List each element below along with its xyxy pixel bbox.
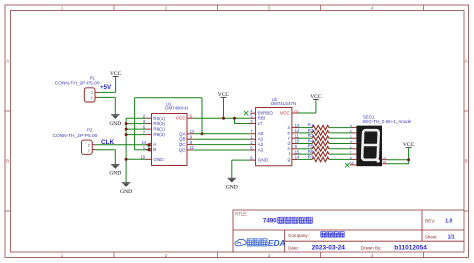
svg-text:QB: QB: [179, 137, 186, 142]
svg-text:A1: A1: [383, 156, 387, 160]
junction on GND bus 4: [125, 158, 128, 161]
svg-text:11: 11: [295, 133, 300, 138]
junction anode node: [407, 158, 410, 161]
svg-text:VCC: VCC: [280, 110, 291, 116]
power flag VCC at U2: [310, 94, 322, 100]
svg-text:1.0: 1.0: [445, 218, 452, 224]
svg-text:7490: 7490: [263, 218, 277, 225]
ground GND below P2: [109, 164, 121, 177]
wire U2 GND pin8: [232, 160, 250, 178]
svg-text:4: 4: [371, 6, 374, 11]
svg-text:R0(1): R0(1): [153, 116, 165, 121]
title value 7490 counter circuit: [263, 217, 312, 224]
svg-text:Company:: Company:: [288, 233, 309, 238]
svg-text:f: f: [350, 151, 351, 155]
svg-text:A0: A0: [258, 131, 264, 136]
svg-text:EDA: EDA: [268, 238, 286, 248]
svg-text:QC: QC: [179, 142, 187, 147]
ground GND below P1: [109, 114, 121, 127]
wire QD to A3: [193, 149, 250, 151]
wire P1 pin2 to VCC: [99, 77, 116, 93]
svg-text:3: 3: [268, 253, 271, 258]
wire QC to A2: [193, 144, 250, 146]
svg-text:DM74LS47N: DM74LS47N: [271, 101, 296, 106]
svg-text:2: 2: [165, 6, 168, 11]
op-amp U1 DM7490AN: [140, 101, 195, 165]
svg-text:LT: LT: [258, 121, 263, 126]
resistor R3: [298, 133, 353, 140]
ground GND below U2: [226, 178, 238, 191]
junction on GND bus 3: [125, 133, 128, 136]
svg-text:d: d: [350, 140, 352, 144]
junction on GND bus 1: [125, 122, 128, 125]
wire VCC net U1 pin5 to U2: [193, 98, 250, 124]
svg-text:B: B: [465, 158, 468, 163]
svg-text:12: 12: [295, 128, 300, 133]
svg-text:2023-03-24: 2023-03-24: [312, 245, 346, 252]
svg-text:1/1: 1/1: [448, 235, 455, 241]
svg-text:R5: R5: [308, 144, 314, 149]
svg-text:GND: GND: [258, 158, 269, 163]
svg-text:14: 14: [142, 140, 147, 145]
wire U2 VCC pin16: [298, 100, 316, 113]
svg-text:2: 2: [165, 253, 168, 258]
svg-text:R9(1): R9(1): [153, 127, 165, 132]
svg-text:14: 14: [295, 155, 300, 160]
svg-text:A3: A3: [258, 147, 264, 152]
Company value: [321, 232, 344, 237]
title block grid: [233, 210, 464, 252]
svg-text:11: 11: [190, 145, 195, 150]
svg-text:CONN-TH_2P-P5.00: CONN-TH_2P-P5.00: [53, 133, 98, 139]
junction at U1 pin A: [147, 143, 150, 146]
svg-text:1: 1: [88, 147, 90, 152]
svg-text:P2: P2: [87, 128, 93, 133]
svg-text:Drawn By:: Drawn By:: [361, 245, 382, 250]
svg-text:13: 13: [295, 123, 300, 128]
no-connect X on U2 pin 4: [244, 111, 248, 115]
svg-text:A2: A2: [258, 142, 264, 147]
svg-text:DP: DP: [350, 161, 355, 165]
display SEG1 seven-segment: [350, 114, 412, 166]
svg-text:R4: R4: [308, 138, 314, 143]
resistor R6: [298, 149, 353, 156]
wire QA feedback to pin B: [135, 98, 202, 150]
svg-text:g: g: [350, 156, 352, 160]
svg-text:B: B: [153, 147, 156, 152]
svg-text:QA: QA: [179, 131, 187, 136]
wire U1 reset pins to GND bus: [126, 118, 145, 182]
svg-text:b11012054: b11012054: [394, 245, 427, 252]
resistor R5: [298, 144, 353, 151]
connector P1: [55, 75, 100, 102]
svg-text:R1: R1: [308, 123, 314, 128]
junction VCC tap: [222, 117, 225, 120]
svg-text:R6: R6: [308, 149, 314, 154]
svg-text:R7: R7: [308, 154, 314, 159]
svg-text:GND: GND: [109, 121, 121, 127]
power flag VCC mid: [218, 92, 230, 98]
wire P2 pin1 to GND: [96, 150, 116, 164]
svg-text:4: 4: [371, 253, 374, 258]
wire QA to A0: [193, 133, 250, 135]
ground GND below U1: [120, 182, 132, 195]
wire QB to A1: [193, 138, 250, 140]
junction QA node: [201, 132, 204, 135]
svg-text:A1: A1: [258, 137, 264, 142]
svg-text:a: a: [350, 124, 352, 128]
svg-text:TITLE:: TITLE:: [235, 212, 248, 217]
junction on GND bus 2: [125, 128, 128, 131]
svg-text:R9(2): R9(2): [153, 132, 165, 137]
svg-text:GND: GND: [109, 171, 121, 177]
junction at U1 pin B: [147, 148, 150, 151]
svg-text:3: 3: [268, 6, 271, 11]
svg-text:B: B: [6, 158, 9, 163]
resistor R4: [298, 138, 353, 145]
svg-text:QD: QD: [179, 147, 187, 152]
power flag VCC at P1: [110, 71, 122, 77]
resistor R7: [298, 154, 353, 161]
svg-text:P1: P1: [90, 75, 96, 80]
junction LT branch: [233, 117, 236, 120]
svg-text:1: 1: [61, 253, 64, 258]
decoder U2 DM74LS47N: [250, 97, 300, 166]
wire P1 pin1 to GND: [99, 97, 116, 114]
svg-text:REV:: REV:: [425, 218, 435, 223]
svg-text:DM7490AN: DM7490AN: [165, 105, 188, 110]
svg-text:15: 15: [295, 149, 300, 154]
resistor R1: [298, 123, 353, 130]
svg-text:GND: GND: [120, 189, 132, 195]
svg-text:c: c: [350, 135, 352, 139]
svg-text:Sheet:: Sheet:: [425, 234, 438, 239]
svg-text:R0(2): R0(2): [153, 121, 165, 126]
svg-text:GND: GND: [153, 157, 164, 162]
svg-text:b: b: [350, 129, 352, 133]
wire SEG1 anode to VCC: [388, 148, 409, 164]
svg-text:Date:: Date:: [288, 245, 299, 250]
svg-text:+5V: +5V: [100, 84, 112, 91]
svg-text:1: 1: [91, 95, 93, 100]
svg-text:SEG-TH_0.56+1_Anode: SEG-TH_0.56+1_Anode: [362, 119, 411, 124]
no-connect X on SEG1 DP: [345, 163, 349, 167]
connector P2: [53, 128, 98, 155]
svg-text:GND: GND: [226, 184, 238, 190]
svg-text:10: 10: [295, 139, 300, 144]
svg-text:12: 12: [190, 129, 195, 134]
svg-text:R3: R3: [308, 133, 314, 138]
svg-text:1: 1: [61, 6, 64, 11]
EasyEDA logo: [235, 238, 286, 248]
power flag VCC at SEG1: [403, 142, 415, 148]
wire CLK net P2 pin2 to U1 pin A: [96, 144, 149, 146]
svg-text:CONN-TH_2P-P5.00: CONN-TH_2P-P5.00: [55, 81, 100, 87]
svg-text:VCC: VCC: [175, 116, 186, 122]
resistor R2: [298, 128, 353, 135]
svg-text:e: e: [350, 145, 352, 149]
svg-text:A2: A2: [383, 160, 387, 164]
svg-text:R2: R2: [308, 128, 314, 133]
